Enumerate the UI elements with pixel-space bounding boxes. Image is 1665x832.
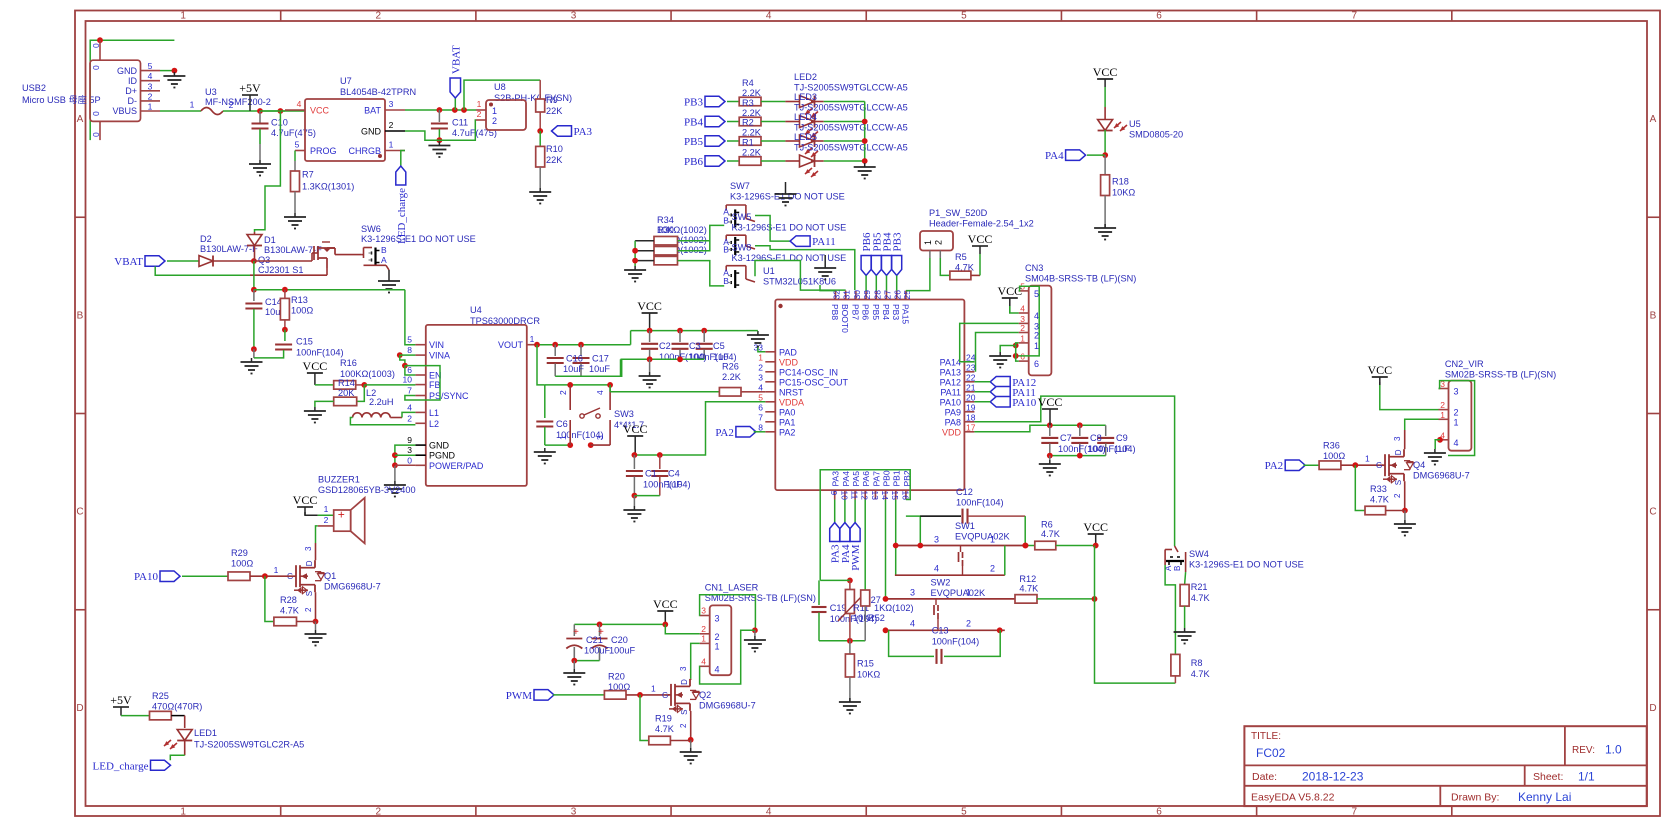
svg-text:4: 4 (407, 402, 412, 412)
svg-text:R15: R15 (857, 659, 874, 669)
svg-text:TJ-S2005SW9TGLCCW-A5: TJ-S2005SW9TGLCCW-A5 (794, 143, 908, 153)
svg-text:VCC: VCC (637, 299, 662, 313)
svg-text:6: 6 (1156, 807, 1162, 818)
svg-text:1: 1 (530, 334, 535, 344)
svg-text:B: B (381, 245, 387, 255)
svg-text:22K: 22K (546, 106, 563, 116)
svg-text:1.3KΩ(1301): 1.3KΩ(1301) (302, 182, 354, 192)
svg-text:LED5: LED5 (794, 132, 817, 142)
svg-text:D2: D2 (200, 234, 212, 244)
svg-text:Q3: Q3 (258, 255, 270, 265)
svg-text:MF-NSMF200-2: MF-NSMF200-2 (205, 97, 271, 107)
svg-text:29: 29 (862, 290, 872, 300)
svg-text:VCC: VCC (1038, 395, 1063, 409)
svg-text:PA7: PA7 (871, 471, 881, 487)
svg-text:PA0: PA0 (779, 407, 795, 417)
svg-text:2: 2 (1440, 400, 1445, 410)
svg-text:2: 2 (558, 390, 568, 395)
svg-text:0: 0 (91, 65, 101, 70)
svg-text:2: 2 (1454, 408, 1459, 418)
svg-text:C16: C16 (566, 354, 583, 364)
svg-text:SW8: SW8 (732, 243, 752, 253)
svg-text:R20: R20 (608, 672, 625, 682)
svg-text:PA14: PA14 (940, 357, 961, 367)
svg-text:Micro USB 母座 5P: Micro USB 母座 5P (22, 94, 101, 105)
svg-text:4.7K: 4.7K (1019, 584, 1039, 594)
svg-text:2: 2 (758, 362, 763, 372)
svg-text:30: 30 (852, 290, 862, 300)
svg-text:VCC: VCC (1093, 65, 1118, 79)
svg-text:3: 3 (595, 435, 605, 440)
svg-text:PA10: PA10 (134, 571, 159, 583)
svg-text:1: 1 (180, 807, 186, 818)
svg-text:3: 3 (701, 606, 706, 616)
svg-text:C1: C1 (645, 469, 657, 479)
svg-text:2: 2 (304, 607, 313, 612)
svg-text:C9: C9 (1116, 433, 1128, 443)
svg-text:R29: R29 (231, 548, 248, 558)
svg-text:D: D (76, 703, 83, 714)
svg-text:2: 2 (934, 240, 944, 245)
svg-text:1: 1 (180, 11, 186, 22)
svg-text:VOUT: VOUT (498, 340, 524, 350)
svg-text:PB4: PB4 (881, 304, 891, 320)
svg-text:+: + (338, 508, 345, 522)
svg-text:1KΩ(102): 1KΩ(102) (874, 603, 914, 613)
svg-text:4: 4 (1454, 438, 1459, 448)
svg-text:1: 1 (492, 106, 497, 116)
svg-text:Q4: Q4 (1413, 460, 1425, 470)
svg-text:3: 3 (571, 11, 577, 22)
svg-text:SW5: SW5 (732, 212, 752, 222)
svg-text:VDDA: VDDA (779, 397, 804, 407)
svg-text:PA10: PA10 (940, 397, 961, 407)
svg-text:TJ-S2005SW9TGLC2R-A5: TJ-S2005SW9TGLC2R-A5 (194, 740, 304, 750)
svg-text:2.2K: 2.2K (722, 372, 742, 382)
svg-text:1: 1 (1020, 333, 1025, 343)
svg-text:BL4054B-42TPRN: BL4054B-42TPRN (340, 87, 416, 97)
svg-text:8: 8 (407, 345, 412, 355)
svg-text:PB6: PB6 (861, 304, 871, 320)
svg-text:3: 3 (758, 372, 763, 382)
svg-text:20: 20 (966, 392, 976, 402)
svg-text:VCC: VCC (968, 232, 993, 246)
svg-text:2018-12-23: 2018-12-23 (1302, 770, 1364, 784)
svg-text:2: 2 (389, 120, 394, 130)
svg-text:REV:: REV: (1572, 745, 1595, 756)
svg-text:1: 1 (558, 435, 568, 440)
svg-text:VBAT: VBAT (450, 45, 462, 74)
svg-text:GND: GND (429, 441, 450, 451)
svg-text:3: 3 (910, 588, 915, 598)
svg-text:4: 4 (766, 11, 772, 22)
svg-text:1: 1 (1365, 454, 1370, 464)
svg-text:R8: R8 (1191, 658, 1203, 668)
svg-text:2: 2 (407, 413, 412, 423)
svg-text:DMG6968U-7: DMG6968U-7 (324, 582, 381, 592)
svg-text:1: 1 (389, 140, 394, 150)
svg-text:U5: U5 (1129, 119, 1141, 129)
svg-text:PA8: PA8 (945, 417, 961, 427)
svg-text:B: B (723, 216, 729, 226)
svg-text:USB2: USB2 (22, 83, 46, 93)
svg-text:D: D (305, 560, 314, 566)
svg-text:5: 5 (407, 335, 412, 345)
svg-text:27: 27 (883, 290, 893, 300)
svg-text:100Ω: 100Ω (291, 306, 313, 316)
svg-text:K3-1296S-E1 DO NOT USE: K3-1296S-E1 DO NOT USE (1189, 560, 1304, 570)
svg-text:VIN: VIN (429, 340, 444, 350)
svg-text:2.2uH: 2.2uH (369, 397, 394, 407)
svg-text:3: 3 (1454, 387, 1459, 397)
svg-text:B: B (723, 276, 729, 286)
svg-text:TITLE:: TITLE: (1251, 731, 1281, 742)
svg-text:15: 15 (890, 491, 900, 501)
svg-text:C12: C12 (956, 487, 973, 497)
svg-text:Q2: Q2 (699, 690, 711, 700)
svg-text:R19: R19 (655, 714, 672, 724)
svg-text:5: 5 (1034, 289, 1039, 299)
svg-text:3: 3 (679, 666, 688, 671)
svg-text:11: 11 (850, 491, 860, 500)
svg-text:4.7K: 4.7K (280, 606, 300, 616)
svg-text:5: 5 (758, 392, 763, 402)
svg-text:SW2: SW2 (931, 578, 951, 588)
svg-text:PB3: PB3 (891, 304, 901, 320)
svg-text:PA4: PA4 (1045, 150, 1064, 162)
svg-text:PB3: PB3 (892, 232, 904, 251)
svg-text:1: 1 (1034, 341, 1039, 351)
svg-text:SW3: SW3 (614, 409, 634, 419)
svg-text:Header-Female-2.54_1x2: Header-Female-2.54_1x2 (929, 219, 1034, 229)
svg-text:5: 5 (961, 807, 967, 818)
svg-text:C11: C11 (452, 118, 468, 128)
svg-text:R4: R4 (742, 78, 754, 88)
svg-text:C8: C8 (1090, 433, 1102, 443)
svg-text:2: 2 (1034, 331, 1039, 341)
svg-text:C15: C15 (296, 337, 313, 347)
svg-text:4.7K: 4.7K (1191, 593, 1211, 603)
svg-text:D-: D- (128, 96, 138, 106)
svg-text:1: 1 (148, 102, 153, 112)
svg-text:PC14-OSC_IN: PC14-OSC_IN (779, 367, 838, 377)
svg-text:1: 1 (715, 641, 720, 651)
svg-text:14: 14 (880, 491, 890, 501)
svg-text:B: B (1650, 310, 1657, 321)
svg-text:10: 10 (839, 491, 849, 501)
svg-text:PAD: PAD (779, 347, 797, 357)
svg-text:1: 1 (190, 100, 195, 110)
svg-text:K3-1296S-E1 DO NOT USE: K3-1296S-E1 DO NOT USE (732, 253, 847, 263)
svg-text:5: 5 (961, 11, 967, 22)
svg-text:1: 1 (923, 240, 933, 245)
svg-text:4.7K: 4.7K (1041, 529, 1061, 539)
svg-text:EasyEDA V5.8.22: EasyEDA V5.8.22 (1251, 792, 1335, 804)
svg-text:A: A (77, 114, 84, 125)
svg-text:TJ-S2005SW9TGLCCW-A5: TJ-S2005SW9TGLCCW-A5 (794, 103, 908, 113)
svg-text:2: 2 (990, 564, 995, 574)
svg-text:SW7: SW7 (730, 181, 750, 191)
svg-text:PA11: PA11 (940, 387, 961, 397)
svg-text:DMG6968U-7: DMG6968U-7 (699, 700, 756, 710)
svg-text:PA3: PA3 (574, 126, 593, 138)
svg-text:1: 1 (990, 535, 995, 545)
svg-text:B: B (77, 310, 84, 321)
svg-text:1: 1 (324, 504, 329, 514)
svg-text:PA1: PA1 (779, 417, 795, 427)
svg-text:L2: L2 (429, 419, 439, 429)
svg-text:PA6: PA6 (861, 471, 871, 487)
svg-text:100Ω: 100Ω (231, 559, 253, 569)
svg-text:3: 3 (715, 614, 720, 624)
svg-text:10KΩ: 10KΩ (1112, 188, 1135, 198)
svg-text:LED1: LED1 (194, 728, 217, 738)
svg-text:100nF(104): 100nF(104) (296, 348, 344, 358)
svg-text:PB5: PB5 (684, 136, 703, 148)
svg-text:9: 9 (407, 435, 412, 445)
svg-text:PA15: PA15 (900, 304, 910, 324)
svg-text:1: 1 (966, 588, 971, 598)
svg-text:2: 2 (477, 109, 482, 119)
svg-text:K3-1296S-E1 DO NOT USE: K3-1296S-E1 DO NOT USE (732, 223, 847, 233)
svg-text:FC02: FC02 (1256, 746, 1286, 760)
svg-text:VDD: VDD (779, 357, 799, 367)
svg-text:S: S (305, 591, 314, 596)
svg-text:Drawn By:: Drawn By: (1451, 792, 1499, 804)
svg-text:VINA: VINA (429, 351, 450, 361)
svg-text:4.7uF(475): 4.7uF(475) (271, 128, 316, 138)
svg-text:100uF: 100uF (584, 646, 610, 656)
svg-text:10uF: 10uF (563, 364, 584, 374)
svg-text:2: 2 (966, 619, 971, 629)
svg-text:PA10: PA10 (1012, 397, 1037, 409)
svg-text:C10: C10 (271, 118, 288, 128)
svg-text:D: D (1649, 703, 1656, 714)
svg-text:R13: R13 (291, 295, 308, 305)
svg-text:0: 0 (91, 43, 101, 48)
svg-text:1uF: 1uF (666, 480, 682, 490)
svg-text:R34: R34 (657, 215, 674, 225)
svg-text:VCC: VCC (1083, 520, 1108, 534)
svg-text:4: 4 (297, 99, 302, 109)
svg-text:LED_charge: LED_charge (93, 760, 149, 772)
svg-text:3: 3 (571, 807, 577, 818)
svg-text:VCC: VCC (997, 284, 1022, 298)
svg-text:PA12: PA12 (940, 377, 961, 387)
svg-text:C6: C6 (556, 419, 568, 429)
svg-text:R28: R28 (280, 595, 297, 605)
svg-text:100nF(104): 100nF(104) (956, 498, 1004, 508)
svg-text:0: 0 (91, 132, 101, 137)
svg-text:PA2: PA2 (715, 427, 734, 439)
svg-text:PB7: PB7 (850, 304, 860, 320)
svg-text:1: 1 (477, 99, 482, 109)
svg-text:R16: R16 (340, 358, 357, 368)
svg-text:2: 2 (324, 515, 329, 525)
svg-text:CHRGB: CHRGB (348, 146, 381, 156)
svg-text:1.0: 1.0 (1605, 743, 1622, 757)
svg-text:R14: R14 (338, 378, 355, 388)
svg-text:PA2: PA2 (779, 427, 795, 437)
svg-text:POWER/PAD: POWER/PAD (429, 461, 484, 471)
svg-text:R1: R1 (742, 138, 754, 148)
svg-text:STM32L051K8U6: STM32L051K8U6 (763, 277, 836, 287)
svg-text:1: 1 (701, 633, 706, 643)
svg-text:19: 19 (966, 402, 976, 412)
svg-text:PA11: PA11 (812, 236, 836, 248)
svg-text:PWM: PWM (850, 544, 862, 571)
svg-text:PB1: PB1 (892, 470, 902, 486)
svg-text:5: 5 (148, 61, 153, 71)
svg-text:10uF: 10uF (589, 364, 610, 374)
svg-text:VDD: VDD (942, 427, 962, 437)
svg-text:R9: R9 (546, 95, 558, 105)
svg-text:G: G (1376, 461, 1382, 470)
svg-text:R26: R26 (722, 362, 739, 372)
svg-text:CN3: CN3 (1025, 263, 1043, 273)
svg-text:PA3: PA3 (831, 471, 841, 487)
svg-text:10KΩ: 10KΩ (857, 670, 880, 680)
svg-text:100nF(104): 100nF(104) (932, 637, 980, 647)
svg-text:4: 4 (910, 619, 915, 629)
svg-text:PA13: PA13 (940, 367, 961, 377)
svg-text:PC15-OSC_OUT: PC15-OSC_OUT (779, 377, 849, 387)
svg-text:PGND: PGND (429, 451, 456, 461)
svg-text:21: 21 (966, 382, 976, 392)
svg-text:BUZZER1: BUZZER1 (318, 475, 360, 485)
svg-text:GND: GND (361, 127, 382, 137)
svg-text:1: 1 (274, 565, 279, 575)
svg-text:PA9: PA9 (945, 407, 961, 417)
svg-text:PA5: PA5 (851, 471, 861, 487)
svg-text:PA2: PA2 (1265, 460, 1284, 472)
svg-text:6: 6 (407, 365, 412, 375)
svg-text:PA4: PA4 (841, 471, 851, 487)
svg-text:D: D (680, 679, 689, 685)
svg-text:2: 2 (679, 723, 688, 728)
svg-text:CN1_LASER: CN1_LASER (705, 583, 759, 593)
svg-text:7: 7 (1351, 11, 1357, 22)
svg-text:A: A (381, 255, 387, 265)
svg-text:VBUS: VBUS (112, 106, 137, 116)
svg-text:R36: R36 (1323, 441, 1340, 451)
svg-text:1: 1 (758, 352, 763, 362)
svg-text:R3: R3 (742, 98, 754, 108)
svg-text:VCC: VCC (1367, 363, 1392, 377)
svg-text:R2: R2 (742, 118, 754, 128)
svg-text:C13: C13 (932, 626, 949, 636)
svg-text:VCC: VCC (293, 493, 318, 507)
svg-text:100uF: 100uF (609, 646, 635, 656)
svg-text:6: 6 (1034, 359, 1039, 369)
svg-text:C: C (1649, 507, 1656, 518)
svg-text:PB8: PB8 (830, 304, 840, 320)
svg-text:7: 7 (1351, 807, 1357, 818)
svg-text:C20: C20 (611, 635, 628, 645)
svg-text:U1: U1 (763, 266, 775, 276)
svg-text:R10: R10 (546, 144, 563, 154)
svg-text:B: B (1173, 566, 1182, 571)
svg-text:R33: R33 (1370, 484, 1387, 494)
svg-text:17: 17 (966, 422, 976, 432)
svg-text:10KΩ(1002): 10KΩ(1002) (657, 225, 707, 235)
svg-text:4: 4 (1020, 304, 1025, 314)
svg-text:2: 2 (492, 116, 497, 126)
svg-text:U8: U8 (494, 82, 506, 92)
svg-text:31: 31 (842, 290, 852, 300)
svg-text:9: 9 (829, 491, 839, 496)
svg-text:LED4: LED4 (794, 112, 817, 122)
svg-text:R52: R52 (868, 613, 885, 623)
svg-text:D1: D1 (264, 235, 276, 245)
svg-text:PB4: PB4 (684, 117, 703, 129)
svg-text:23: 23 (966, 362, 976, 372)
svg-text:22: 22 (966, 372, 976, 382)
svg-text:22K: 22K (546, 155, 563, 165)
svg-text:SM02B-SRSS-TB (LF)(SN): SM02B-SRSS-TB (LF)(SN) (1445, 370, 1556, 380)
svg-text:3: 3 (934, 535, 939, 545)
svg-text:R5: R5 (955, 252, 967, 262)
svg-text:7: 7 (758, 412, 763, 422)
svg-text:1uF: 1uF (1114, 444, 1130, 454)
svg-text:0: 0 (407, 455, 412, 465)
svg-text:K3-1296S-E1 DO NOT USE: K3-1296S-E1 DO NOT USE (730, 192, 845, 202)
svg-text:PB3: PB3 (684, 97, 703, 109)
svg-text:VCC: VCC (303, 359, 328, 373)
svg-text:Kenny Lai: Kenny Lai (1518, 790, 1571, 804)
svg-text:U3: U3 (205, 87, 217, 97)
svg-text:NRST: NRST (779, 387, 804, 397)
svg-text:12: 12 (860, 491, 870, 501)
svg-text:L1: L1 (429, 408, 439, 418)
svg-text:6: 6 (758, 402, 763, 412)
svg-text:+5V: +5V (110, 693, 132, 707)
svg-text:Q1: Q1 (324, 571, 336, 581)
svg-text:SW1: SW1 (955, 521, 975, 531)
svg-text:S: S (1394, 480, 1403, 485)
svg-text:P1_SW_520D: P1_SW_520D (929, 208, 988, 218)
svg-text:4: 4 (1034, 311, 1039, 321)
svg-text:3: 3 (148, 81, 153, 91)
svg-text:TJ-S2005SW9TGLCCW-A5: TJ-S2005SW9TGLCCW-A5 (794, 83, 908, 93)
svg-text:2: 2 (376, 807, 382, 818)
svg-text:PWM: PWM (506, 690, 533, 702)
svg-text:2: 2 (229, 100, 234, 110)
svg-text:PB6: PB6 (684, 156, 703, 168)
svg-text:EVQPUA02K: EVQPUA02K (955, 532, 1011, 542)
svg-text:R6: R6 (1041, 520, 1053, 530)
svg-text:4: 4 (934, 564, 939, 574)
svg-text:GSD128065YB-3V2400: GSD128065YB-3V2400 (318, 485, 416, 495)
svg-text:C21: C21 (586, 635, 603, 645)
svg-text:8: 8 (758, 422, 763, 432)
svg-text:2: 2 (1393, 493, 1402, 498)
svg-text:Date:: Date: (1252, 771, 1277, 783)
svg-text:+: + (573, 627, 579, 638)
svg-text:S2B-PH-K(LF)(SN): S2B-PH-K(LF)(SN) (494, 93, 572, 103)
svg-text:4: 4 (701, 656, 706, 666)
svg-text:S: S (680, 710, 689, 715)
svg-text:4: 4 (595, 390, 605, 395)
svg-text:G: G (662, 691, 668, 700)
svg-text:1: 1 (1454, 417, 1459, 427)
svg-text:K3-1296S-E1 DO NOT USE: K3-1296S-E1 DO NOT USE (361, 234, 476, 244)
svg-text:VCC: VCC (623, 422, 648, 436)
svg-text:C3: C3 (689, 341, 701, 351)
svg-text:3: 3 (1393, 436, 1402, 441)
svg-text:4.7K: 4.7K (1370, 495, 1390, 505)
svg-text:EVQPUA02K: EVQPUA02K (931, 588, 987, 598)
